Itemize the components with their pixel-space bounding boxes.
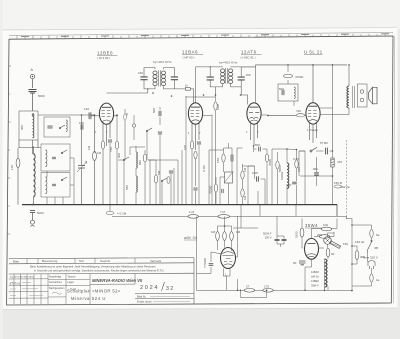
antenna terminal A xyxy=(30,74,34,78)
resistor 150B xyxy=(334,185,342,188)
coupling cap 140 to T1 grid xyxy=(89,112,91,119)
T2 cathode resistor xyxy=(190,141,193,149)
IFT2 core xyxy=(226,68,228,84)
svg-text:1 M: 1 M xyxy=(189,210,195,214)
cap 100 xyxy=(81,124,83,129)
resistor 5200 xyxy=(300,228,304,237)
resistor 47 xyxy=(124,114,127,120)
cap 500 below T1 xyxy=(159,111,161,116)
border frame xyxy=(7,36,393,305)
svg-text:30: 30 xyxy=(331,252,335,256)
wire left vert to bus xyxy=(17,148,19,205)
resistor 1M mid2 xyxy=(241,189,244,197)
IFT2 wires xyxy=(196,67,242,97)
svg-text:345: 345 xyxy=(297,167,301,172)
svg-text:1K: 1K xyxy=(185,84,188,87)
svg-text:47000: 47000 xyxy=(295,75,304,79)
svg-text:500: 500 xyxy=(255,143,260,147)
title block frame xyxy=(9,258,194,305)
svg-text:100: 100 xyxy=(323,223,328,227)
svg-text:Tausch: Tausch xyxy=(68,275,77,278)
IFT2 cap left xyxy=(207,77,214,80)
svg-text:Nachgesehen: Nachgesehen xyxy=(49,287,65,290)
sub rail xyxy=(112,216,347,219)
svg-text:175: 175 xyxy=(264,284,269,288)
svg-text:0.25: 0.25 xyxy=(293,157,299,161)
svg-text:.006: .006 xyxy=(312,167,318,171)
svg-text:1M: 1M xyxy=(243,167,247,172)
IFT1 junction dots xyxy=(147,88,148,89)
svg-text:mW 2a: mW 2a xyxy=(340,185,350,189)
T1 cathode resistor xyxy=(101,141,104,149)
svg-text:Beim Auslieferung ist unter Ei: Beim Auslieferung ist unter Eigenteil .J… xyxy=(30,265,156,269)
T3 plate wire up xyxy=(255,65,257,103)
cap in band box 1 xyxy=(52,157,56,158)
resistor 30 xyxy=(326,248,330,257)
IFT1 cap left xyxy=(140,77,147,80)
svg-text:160: 160 xyxy=(246,73,251,77)
svg-text:150 Hz: 150 Hz xyxy=(355,240,365,244)
cap in band box 2 xyxy=(52,184,56,185)
band box 2 xyxy=(41,172,70,197)
coil mid xyxy=(136,152,137,168)
svg-text:Blatt Nr.: Blatt Nr. xyxy=(137,294,147,298)
svg-text:a 7a 5 52: a 7a 5 52 xyxy=(10,281,21,285)
switch in band box 2 xyxy=(61,177,67,181)
ruler dark dashes xyxy=(21,34,389,37)
wire B+ rail xyxy=(241,65,347,67)
wire B+ down xyxy=(332,65,334,151)
svg-text:12AT6: 12AT6 xyxy=(241,50,257,55)
label U5L21 underline xyxy=(304,54,323,56)
IFT2 cap right xyxy=(238,77,245,80)
gezeichnet box xyxy=(48,274,66,304)
svg-text:1M: 1M xyxy=(243,195,247,200)
mains resistor bottom 1a xyxy=(370,274,373,282)
svg-text:75K: 75K xyxy=(109,147,113,152)
svg-text:12BA6: 12BA6 xyxy=(311,270,319,274)
resistor 75K xyxy=(115,141,118,149)
speaker xyxy=(369,87,378,104)
cap 0.25 xyxy=(257,176,259,181)
wires below T1 xyxy=(125,109,160,205)
resistor cluster right2 xyxy=(167,176,170,183)
tube pin labels xyxy=(95,130,259,277)
resistor 1M sub xyxy=(188,215,199,219)
coil in filter box xyxy=(294,87,295,99)
T1 screen cap xyxy=(108,140,112,142)
IFT1 secondary coil xyxy=(161,71,165,86)
svg-text:Tag Abt N And Nam Blatt: Tag Abt N And Nam Blatt xyxy=(10,275,34,278)
eye grid cap xyxy=(209,264,214,266)
switch in band box 1 xyxy=(61,150,67,154)
wire cap500 xyxy=(159,107,161,125)
svg-text:/95: /95 xyxy=(374,246,379,250)
tone switch xyxy=(310,147,317,152)
svg-text:Benennung: Benennung xyxy=(42,259,58,263)
switch mid xyxy=(123,157,129,161)
svg-text:32: 32 xyxy=(166,286,175,292)
T1 pin wires xyxy=(103,116,118,146)
border right inner line xyxy=(393,36,394,303)
svg-text:100: 100 xyxy=(183,145,187,150)
signature squiggle xyxy=(52,292,62,294)
svg-text:A: A xyxy=(94,150,96,154)
T2 pin wires xyxy=(192,116,212,151)
resistor 0.25 r xyxy=(295,160,298,168)
cap below T2 xyxy=(193,188,197,190)
switch in box xyxy=(59,125,65,129)
wire antenna down xyxy=(32,79,34,88)
output transformer primary xyxy=(347,86,349,108)
svg-text:MINERVA-RADIO Wien VII: MINERVA-RADIO Wien VII xyxy=(92,278,143,283)
tube T2 12BA6 xyxy=(188,103,202,124)
svg-text:7=5000: 7=5000 xyxy=(203,258,207,268)
IFT2 primary coil xyxy=(221,69,225,84)
T4 pin wires xyxy=(310,65,333,143)
resistor 700K xyxy=(265,154,268,162)
resistor 47000 xyxy=(284,74,293,77)
electrolytic filter cap xyxy=(275,239,287,241)
resistor 7M sub xyxy=(218,215,230,219)
svg-text:1M: 1M xyxy=(97,151,102,155)
svg-text:12BE6: 12BE6 xyxy=(311,279,319,283)
svg-text:5000: 5000 xyxy=(37,211,44,215)
psu wires xyxy=(302,219,337,291)
svg-text:150: 150 xyxy=(343,242,348,246)
svg-text:800: 800 xyxy=(138,160,142,165)
svg-text:( H BC 91 ): ( H BC 91 ) xyxy=(241,55,256,59)
plug symbol xyxy=(368,261,375,270)
IFT2 junction dots xyxy=(210,66,211,67)
resistor mid xyxy=(143,154,146,162)
cap cluster right xyxy=(169,171,173,173)
IFT2 secondary coil xyxy=(229,69,233,84)
T2 top wire to IFT2 xyxy=(195,67,197,103)
diode circle small xyxy=(132,124,135,127)
chassis bus heavy xyxy=(22,204,337,206)
cap below T1b xyxy=(158,132,162,134)
svg-text:72K: 72K xyxy=(296,109,301,113)
svg-text:Angefertigt: Angefertigt xyxy=(49,275,61,278)
title header row cells xyxy=(27,258,135,264)
cap 5000 below antenna xyxy=(30,211,35,213)
T2 screen parts xyxy=(197,142,201,144)
svg-text:Netz 220 V: Netz 220 V xyxy=(363,256,378,260)
earth terminal xyxy=(31,213,35,227)
fuse diagonal xyxy=(330,241,341,249)
svg-text:5M: 5M xyxy=(157,170,161,175)
svg-text:12BA6: 12BA6 xyxy=(182,50,198,55)
bus end hook xyxy=(336,205,338,217)
below-bus stubs right xyxy=(233,205,296,228)
svg-text:Schaltplan »MINOR 52«: Schaltplan »MINOR 52« xyxy=(67,289,121,294)
mains wires xyxy=(352,225,372,286)
OT core xyxy=(352,86,354,108)
svg-text:in Urschrift und wird gerichtl: in Urschrift und wird gerichtlich verfol… xyxy=(34,268,165,272)
antenna coil box xyxy=(19,111,38,140)
wires box verticals to bus xyxy=(47,158,74,205)
volume pot xyxy=(224,171,234,183)
band box 1 xyxy=(41,144,70,171)
svg-text:10M: 10M xyxy=(216,104,220,110)
tube T1 12BE6 xyxy=(99,103,113,124)
resistor 10M left of T3 xyxy=(214,102,217,110)
wires AF cluster xyxy=(216,143,267,205)
wire 0.1M xyxy=(109,205,111,211)
svg-text:50: 50 xyxy=(293,261,297,265)
wire right column xyxy=(347,219,353,291)
svg-text:2024: 2024 xyxy=(140,285,159,291)
wire cathode to bus xyxy=(102,149,104,205)
svg-text:35W 4: 35W 4 xyxy=(311,284,319,288)
cap in filter box xyxy=(282,90,284,95)
wires tone xyxy=(299,151,333,205)
svg-text:Gepruft: Gepruft xyxy=(100,259,110,263)
svg-text:fq=483 KHz: fq=483 KHz xyxy=(153,60,172,64)
eye wires xyxy=(197,216,238,279)
heater chain coil xyxy=(325,259,327,287)
svg-text:= 0.1M: = 0.1M xyxy=(117,212,127,216)
OT sec terminals xyxy=(360,90,363,93)
resistor 0.1M right T2 xyxy=(194,151,197,159)
wires choke column xyxy=(278,149,306,205)
cap .006 xyxy=(314,173,319,175)
wire top link xyxy=(38,114,95,116)
svg-text:27: 27 xyxy=(246,284,250,288)
switch below T1 xyxy=(146,128,152,132)
resistor 5003 xyxy=(276,161,279,169)
svg-text:35W4: 35W4 xyxy=(305,223,318,228)
svg-text:Blatt: Blatt xyxy=(13,259,19,263)
tube T4 50B5 xyxy=(306,103,320,124)
svg-text:5004 F: 5004 F xyxy=(263,232,272,236)
svg-text:5003: 5003 xyxy=(278,165,282,172)
svg-text:1M: 1M xyxy=(87,145,91,150)
resistor 15K xyxy=(222,154,225,162)
svg-text:140: 140 xyxy=(84,107,89,111)
svg-text:500: 500 xyxy=(152,108,156,113)
svg-text:( W 4 92 ): ( W 4 92 ) xyxy=(97,56,110,60)
svg-text:5200: 5200 xyxy=(295,231,299,238)
IFT1 core xyxy=(158,70,160,86)
svg-text:fq=483 KHz: fq=483 KHz xyxy=(219,60,238,64)
svg-text:( HF 93 ): ( HF 93 ) xyxy=(183,55,195,59)
IFT1 wires xyxy=(107,68,175,93)
eye resistor b xyxy=(223,232,227,241)
resistor 200 psu xyxy=(319,235,330,239)
resistor 470 boxed xyxy=(331,158,334,167)
coil in band box 2 xyxy=(46,177,47,194)
svg-text:57 B0: 57 B0 xyxy=(320,141,328,145)
svg-text:470: 470 xyxy=(337,160,342,164)
svg-text:1M: 1M xyxy=(236,230,241,234)
tube T3 12AT6 xyxy=(247,103,261,124)
svg-text:Gezeichnet: Gezeichnet xyxy=(49,281,62,284)
variable capacitor with arrow xyxy=(77,162,87,172)
cap 50 xyxy=(292,182,297,184)
drawing number box xyxy=(135,294,194,299)
svg-text:560: 560 xyxy=(125,185,129,190)
shorting loop around resistor 27 xyxy=(241,290,267,297)
choke coil 10000 xyxy=(287,163,289,189)
resistor 70000 xyxy=(214,184,217,192)
resistor 0.1M below bus xyxy=(106,211,114,214)
svg-text:6a: 6a xyxy=(376,233,380,237)
wire varcap xyxy=(81,115,83,205)
resistor 27 xyxy=(244,288,255,292)
wire cap to coil xyxy=(32,94,34,112)
svg-text:700K: 700K xyxy=(268,159,272,166)
resistor 100 psu xyxy=(321,227,332,231)
IFT1 primary coil xyxy=(153,71,157,86)
oscillator coil tall xyxy=(34,154,36,197)
wire lower rail to psu xyxy=(238,289,353,291)
mains switch xyxy=(368,238,373,253)
svg-text:wM 3a: wM 3a xyxy=(311,275,319,279)
svg-text:Lager: Lager xyxy=(68,281,75,284)
resistor cluster right xyxy=(154,175,157,183)
capacitor 5000 antenna series xyxy=(29,90,37,94)
wire IFT1 sec to T2 grid xyxy=(174,89,193,103)
eye resistor c xyxy=(230,232,234,241)
wire coil bottom to osc section xyxy=(19,140,38,154)
cap 5002 xyxy=(231,155,233,162)
IFT1 cap right xyxy=(171,77,178,80)
svg-text:15K: 15K xyxy=(216,158,220,163)
ruler ticks left border xyxy=(8,66,12,234)
resistor 175 xyxy=(263,288,274,292)
lower rail magic eye xyxy=(197,274,238,291)
svg-text:7 M: 7 M xyxy=(220,210,226,214)
resistor 1M mid xyxy=(241,171,244,179)
svg-text:U 5L 21: U 5L 21 xyxy=(304,50,323,55)
tuning box upper left xyxy=(44,117,70,137)
electrolytic caps xyxy=(299,261,306,265)
resistor 11K vertical xyxy=(16,158,20,167)
svg-text:Ersatz durch: Ersatz durch xyxy=(137,299,152,303)
revision table xyxy=(9,274,48,304)
svg-text:0.1M: 0.1M xyxy=(202,165,206,172)
wire cap to tube xyxy=(92,115,100,117)
company name box xyxy=(90,274,135,285)
wire IFT2 sec to T3 grid xyxy=(241,87,247,105)
svg-text:12BE6: 12BE6 xyxy=(97,51,113,56)
wires mid cluster xyxy=(124,146,145,205)
resistor 72K xyxy=(296,114,305,117)
T3 pin wires xyxy=(251,115,269,146)
svg-text:1a: 1a xyxy=(376,278,380,282)
rectifier tube 35W4 xyxy=(305,238,319,259)
svg-text:5000: 5000 xyxy=(38,94,45,98)
wire osc coil to bus xyxy=(33,146,35,205)
coil mid lower xyxy=(136,176,137,192)
cap 500 xyxy=(259,147,261,152)
trimmer cap in box xyxy=(47,126,52,128)
svg-text:150 V: 150 V xyxy=(265,235,272,239)
svg-text:600: 600 xyxy=(20,125,24,130)
border ruler top line xyxy=(9,33,393,36)
OT wires xyxy=(320,65,349,115)
svg-text:Minerva 524 U: Minerva 524 U xyxy=(71,296,106,301)
svg-text:Vermerk: Vermerk xyxy=(150,259,162,263)
antenna coil winding xyxy=(33,114,34,138)
svg-text:50: 50 xyxy=(288,183,292,187)
grid stopper resistor xyxy=(185,88,190,91)
resistor 300 xyxy=(355,251,359,260)
misc tiny value labels xyxy=(87,104,350,200)
coil small in box xyxy=(66,120,67,132)
svg-text:Teil: Teil xyxy=(79,259,84,263)
extra vertical wires midband xyxy=(150,96,305,205)
wire horizontals midband xyxy=(19,148,287,167)
resistor 1M right of boxes xyxy=(93,151,97,160)
svg-text:600: 600 xyxy=(117,153,121,158)
svg-text:11K: 11K xyxy=(10,165,14,170)
wires cluster right xyxy=(148,160,178,205)
svg-text:0.25: 0.25 xyxy=(252,171,258,175)
OT secondary box xyxy=(358,84,368,107)
tone cap xyxy=(326,148,328,155)
wire resistor vert xyxy=(94,115,96,205)
ruler ticks top border xyxy=(17,34,385,39)
eye resistor a xyxy=(216,232,220,241)
svg-text:wM 34: wM 34 xyxy=(184,235,198,240)
svg-text:160: 160 xyxy=(138,71,143,75)
svg-text:1M: 1M xyxy=(211,230,216,234)
gepruft box xyxy=(66,274,90,304)
mains resistor top 6a xyxy=(370,229,373,237)
dashed wire right xyxy=(346,140,348,219)
coil in band box 1 xyxy=(46,150,47,167)
magic eye tube xyxy=(221,248,236,269)
switch cluster right xyxy=(161,178,167,182)
pilot lamp xyxy=(324,237,332,245)
wire 72K to T4 grid xyxy=(268,114,306,116)
cap small xyxy=(222,189,223,193)
wire filter to 72K xyxy=(293,101,295,106)
svg-text:500: 500 xyxy=(279,87,284,91)
detector filter box xyxy=(278,84,298,101)
